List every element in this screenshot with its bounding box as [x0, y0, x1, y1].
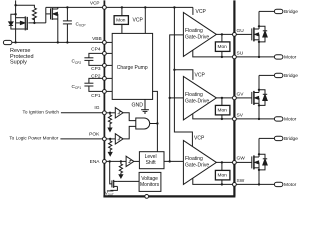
transistor Q2 [46, 7, 58, 42]
terminal bridge V [274, 73, 283, 77]
transistor QW [252, 138, 259, 184]
junction (34,22.5) [33, 22, 35, 24]
junction (258.6,118.5) [258, 118, 260, 120]
terminal bridge U [274, 9, 283, 13]
svg-text:Gate-Drive: Gate-Drive [185, 162, 209, 168]
junction (174,7) [173, 6, 175, 8]
svg-text:SU: SU [237, 51, 244, 57]
monitor box M2 [221, 98, 223, 106]
IC left edge [103, 0, 105, 196]
svg-text:Motor: Motor [284, 182, 297, 188]
wire GU [216, 33, 232, 35]
svg-text:Bridge: Bridge [284, 73, 298, 79]
IC bottom edge [103, 195, 235, 197]
svg-text:SV: SV [237, 113, 244, 119]
junction (15.2,4.8) [14, 4, 16, 6]
svg-text:Bridge: Bridge [284, 136, 298, 142]
svg-text:Motor: Motor [284, 116, 297, 122]
wire buffer3 to level shift [134, 160, 140, 162]
wire VCP rail [46, 6, 193, 8]
level shift box [139, 152, 164, 169]
svg-text:GW: GW [237, 156, 246, 162]
svg-text:Shift: Shift [146, 160, 157, 166]
diode D1 [9, 14, 28, 29]
junction (258.6,153.9) [258, 153, 260, 155]
wire VCP bus [173, 7, 175, 69]
svg-text:GU: GU [237, 28, 245, 34]
wire internal VCP [144, 7, 146, 33]
svg-text:Gate-Drive: Gate-Drive [185, 98, 209, 104]
pin circle VCP [103, 6, 107, 10]
resistor R1 [32, 8, 36, 23]
junction (258.6,184) [258, 183, 260, 185]
junction (169.3,97.5) [169, 97, 171, 99]
junction (109.8,138.5) [109, 138, 111, 140]
svg-text:VCP: VCP [90, 1, 99, 6]
wire SU [193, 50, 233, 57]
capacitor CCP2 [84, 58, 102, 66]
pin circle GU [233, 33, 237, 37]
pin circle CP3 [103, 64, 107, 68]
wire supply branch left [16, 5, 35, 8]
svg-text:Mon: Mon [218, 108, 228, 114]
pin circle VBB [103, 41, 107, 45]
svg-text:VCP: VCP [133, 18, 144, 24]
junction (258.6,105) [258, 104, 260, 106]
transistor QV [252, 75, 259, 119]
svg-text:VCP: VCP [196, 9, 207, 15]
wire ENA internal [106, 160, 127, 162]
wire CP1 [106, 90, 112, 92]
terminal motor U [274, 55, 283, 59]
transistor QU [252, 11, 259, 57]
transistor Q3 output [107, 161, 139, 191]
IC right edge [233, 0, 235, 196]
junction (15.2,42) [14, 41, 16, 43]
op-amp gate drive W [183, 140, 216, 184]
svg-text:Bridge: Bridge [284, 9, 298, 15]
svg-text:To Ignition Switch: To Ignition Switch [23, 109, 60, 114]
svg-text:POK: POK [89, 132, 100, 138]
junction (221.5,162) [221, 161, 223, 163]
svg-text:Charge Pump: Charge Pump [117, 65, 148, 71]
wire level shift out [164, 160, 183, 162]
junction (258.6,25.9) [258, 25, 260, 27]
diode DW [259, 154, 267, 170]
junction (258.6,89.4) [258, 89, 260, 91]
wire SW [193, 178, 233, 184]
junction (258.6,56.5) [258, 56, 260, 58]
svg-text:VCP: VCP [195, 73, 206, 79]
AND gate U3 [136, 118, 150, 129]
junction (157,123.1) [156, 122, 158, 124]
junction (221.5,34) [221, 33, 223, 35]
svg-text:To Logic Power Monitor: To Logic Power Monitor [9, 136, 58, 141]
pin circle CP4 [103, 52, 107, 56]
svg-text:CP2: CP2 [91, 73, 101, 79]
node supply left vertical [15, 0, 17, 42]
pin circle POK [103, 137, 107, 141]
svg-text:Mon: Mon [116, 18, 126, 24]
charge pump U2 [112, 33, 152, 99]
capacitor CVCP [63, 7, 72, 42]
svg-text:Floating: Floating [185, 92, 203, 98]
svg-text:Monitors: Monitors [140, 182, 160, 188]
junction (67,42) [66, 41, 68, 43]
terminal reverse protected supply [3, 40, 12, 44]
wire CP2 [106, 77, 112, 79]
junction (174,69.4) [173, 69, 175, 71]
wire bridge U [259, 10, 274, 12]
buffer A2 [115, 134, 123, 144]
diode DV [259, 90, 267, 106]
wire CP3 [106, 64, 112, 66]
junction (15.2,13.8) [14, 13, 16, 15]
wire charge pump out [152, 91, 157, 151]
monitor box M3 [221, 162, 223, 170]
wire rail to mon [121, 7, 123, 15]
junction (221.5,184) [221, 183, 223, 185]
wire POK internal [106, 138, 115, 140]
wire VBB supply [12, 41, 103, 43]
svg-text:CP1: CP1 [91, 93, 101, 99]
svg-text:IG: IG [94, 105, 99, 111]
buffer A3 [126, 156, 134, 166]
pin circle SV [233, 117, 237, 121]
wire GV [216, 97, 232, 99]
junction (221.5,118.5) [221, 118, 223, 120]
junction (67,7) [66, 6, 68, 8]
pin circle GV [233, 96, 237, 100]
junction (120.5,161) [120, 160, 122, 162]
resistor ENA pulldown [119, 161, 122, 175]
svg-text:Floating: Floating [185, 28, 203, 34]
junction (144.9,7) [144, 6, 146, 8]
junction (57.4,42) [57, 41, 59, 43]
wire SV [193, 114, 233, 119]
svg-text:VBB: VBB [92, 36, 102, 42]
svg-text:Floating: Floating [185, 156, 203, 162]
wire input T2 [170, 97, 184, 99]
wire gate line FET1 drain [28, 22, 45, 24]
wire POK external [60, 138, 102, 140]
junction (258.6,169.5) [258, 169, 260, 171]
wire AND out [150, 123, 158, 125]
svg-text:CP3: CP3 [91, 66, 101, 72]
buffer A1 [115, 108, 123, 118]
pin circle GND [145, 195, 149, 199]
diode DU [259, 26, 267, 42]
op-amp gate drive U [183, 12, 216, 56]
junction (169.3,161) [169, 160, 171, 162]
pin circle ENA [103, 160, 107, 164]
svg-text:ENA: ENA [90, 159, 101, 165]
monitor box M0 [114, 16, 128, 25]
pin circle SU [233, 55, 237, 59]
terminal motor V [274, 117, 283, 121]
terminal motor W [274, 182, 283, 186]
wire VCP rail drop to gate-drive U [192, 7, 194, 14]
svg-text:Motor: Motor [284, 54, 297, 60]
svg-text:Mon: Mon [218, 44, 228, 50]
capacitor CCP1 [84, 83, 102, 91]
wire CP4 [106, 52, 112, 54]
monitor box M1 [221, 34, 223, 42]
svg-text:Supply: Supply [10, 60, 27, 66]
wire GW [216, 161, 232, 163]
pin circle GW [233, 161, 237, 165]
junction (121.5,7) [121, 6, 123, 8]
pin circle CP2 [103, 77, 107, 81]
junction (221.5,97.5) [221, 97, 223, 99]
wire input bus [170, 35, 184, 161]
pin circle SW [233, 183, 237, 187]
op-amp gate drive V [183, 76, 216, 120]
wire IG internal [106, 112, 115, 114]
svg-text:VCP: VCP [194, 136, 205, 142]
svg-text:CP4: CP4 [91, 47, 101, 53]
junction (109.6,112.4) [109, 112, 111, 114]
resistor POK pulldown [109, 139, 112, 153]
svg-text:Mon: Mon [218, 173, 228, 179]
wire bridge W [259, 137, 274, 139]
transistor Q1 [16, 16, 28, 30]
terminal bridge W [274, 136, 283, 140]
wire buffer1 to AND [123, 113, 136, 121]
wire IG external [61, 112, 103, 114]
svg-text:GV: GV [237, 92, 245, 98]
pin circle IG [103, 111, 107, 115]
resistor IG pulldown [108, 113, 111, 128]
wire buffer2 to AND [123, 126, 136, 138]
pin circle CP1 [103, 90, 107, 94]
svg-text:GND: GND [132, 103, 144, 109]
voltage monitors box [139, 172, 161, 191]
svg-text:Gate-Drive: Gate-Drive [185, 34, 209, 40]
junction (109.3,161) [109, 160, 111, 162]
junction (221.5,56.5) [221, 56, 223, 58]
svg-text:SW: SW [237, 178, 245, 184]
ground [141, 99, 149, 113]
junction (258.6,41.5) [258, 41, 260, 43]
wire FET2 gate feed [45, 7, 47, 23]
wire bridge V [259, 74, 274, 76]
